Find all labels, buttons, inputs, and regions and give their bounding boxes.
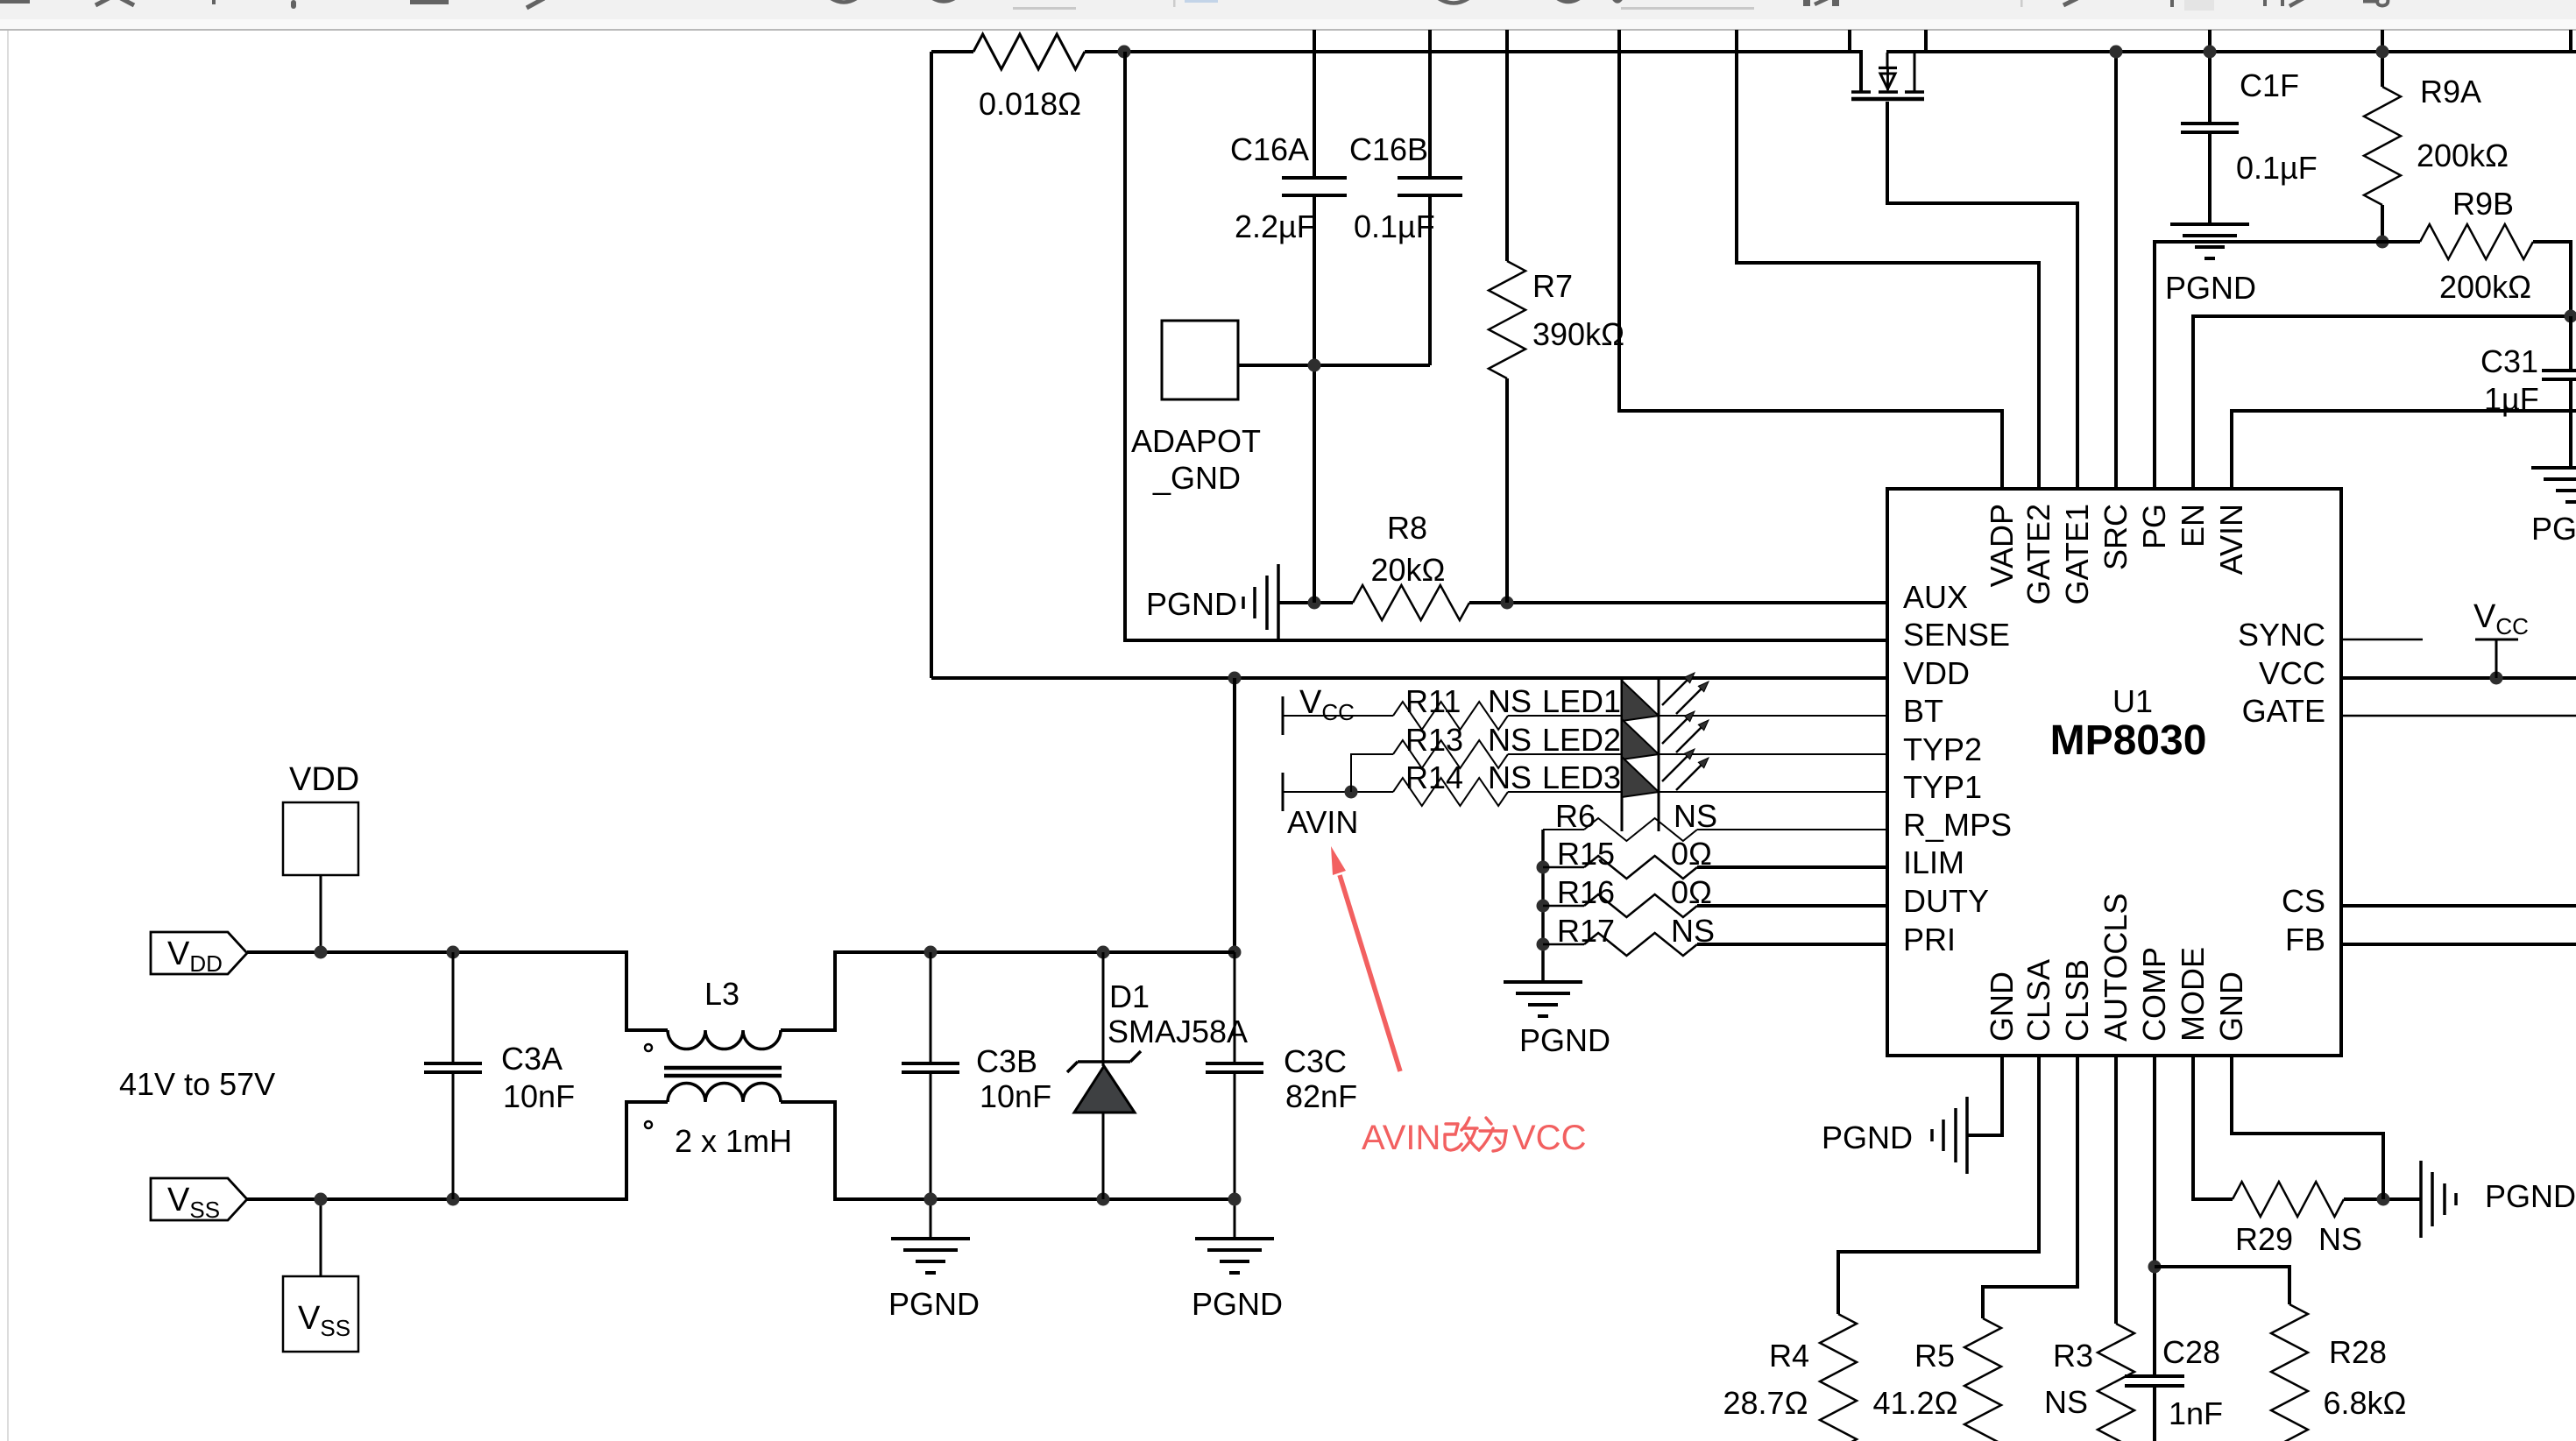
svg-text:VDD: VDD <box>289 761 359 798</box>
svg-text:ADAPOT: ADAPOT <box>1131 423 1261 459</box>
svg-text:PGND: PGND <box>2165 270 2256 306</box>
svg-text:GND: GND <box>2213 971 2249 1042</box>
svg-text:LED2: LED2 <box>1542 722 1621 758</box>
svg-text:0.018Ω: 0.018Ω <box>979 86 1081 122</box>
svg-text:D1: D1 <box>1109 978 1150 1014</box>
svg-text:C16B: C16B <box>1349 131 1428 167</box>
svg-text:0.1µF: 0.1µF <box>1354 208 1435 244</box>
svg-text:FB: FB <box>2285 922 2325 957</box>
svg-text:2 x 1mH: 2 x 1mH <box>675 1123 792 1159</box>
svg-text:6.8kΩ: 6.8kΩ <box>2324 1385 2407 1421</box>
svg-text:NS: NS <box>1488 759 1532 795</box>
svg-text:PGND: PGND <box>1146 586 1237 622</box>
svg-text:TYP1: TYP1 <box>1903 769 1982 805</box>
svg-text:390kΩ: 390kΩ <box>1532 316 1624 352</box>
svg-text:_GND: _GND <box>1152 460 1241 496</box>
svg-text:U1: U1 <box>2112 683 2153 719</box>
svg-text:C3B: C3B <box>976 1043 1037 1079</box>
svg-text:LED1: LED1 <box>1542 683 1621 719</box>
svg-text:0Ω: 0Ω <box>1671 874 1712 910</box>
svg-text:DUTY: DUTY <box>1903 883 1989 919</box>
svg-text:COMP: COMP <box>2136 947 2172 1042</box>
svg-text:R14: R14 <box>1405 759 1463 795</box>
svg-text:L3: L3 <box>704 976 740 1012</box>
svg-text:R7: R7 <box>1532 268 1573 304</box>
svg-text:NS: NS <box>1488 683 1532 719</box>
svg-text:R8: R8 <box>1387 510 1427 546</box>
svg-text:TYP2: TYP2 <box>1903 731 1982 767</box>
svg-text:NS: NS <box>2044 1384 2088 1420</box>
svg-text:NS: NS <box>2318 1221 2362 1257</box>
svg-text:R5: R5 <box>1914 1338 1955 1374</box>
svg-text:AUX: AUX <box>1903 579 1968 615</box>
svg-text:PGND: PGND <box>2531 511 2576 547</box>
svg-text:C28: C28 <box>2162 1334 2220 1370</box>
svg-text:R_MPS: R_MPS <box>1903 807 2012 843</box>
svg-text:AUTOCLS: AUTOCLS <box>2098 894 2134 1042</box>
svg-text:R4: R4 <box>1769 1338 1809 1374</box>
svg-text:MODE: MODE <box>2175 947 2211 1042</box>
svg-text:GATE: GATE <box>2242 693 2325 729</box>
svg-text:CLSB: CLSB <box>2059 959 2095 1042</box>
svg-text:VCC: VCC <box>2259 655 2325 691</box>
svg-text:NS: NS <box>1674 798 1717 834</box>
svg-text:R16: R16 <box>1557 874 1615 910</box>
svg-text:AVIN: AVIN <box>1362 1119 1440 1157</box>
svg-text:VCC: VCC <box>1512 1119 1586 1157</box>
svg-text:10nF: 10nF <box>503 1078 575 1114</box>
svg-text:GATE1: GATE1 <box>2059 504 2095 604</box>
svg-text:R11: R11 <box>1405 683 1461 719</box>
svg-text:1nF: 1nF <box>2169 1395 2223 1431</box>
svg-text:R17: R17 <box>1557 913 1615 949</box>
svg-text:SRC: SRC <box>2098 504 2134 570</box>
svg-text:C3C: C3C <box>1284 1043 1347 1079</box>
svg-text:R9A: R9A <box>2420 74 2481 109</box>
svg-text:AVIN: AVIN <box>2213 504 2249 575</box>
svg-text:PRI: PRI <box>1903 922 1956 957</box>
svg-text:MP8030: MP8030 <box>2050 717 2207 764</box>
svg-text:PGND: PGND <box>1192 1286 1283 1322</box>
svg-text:28.7Ω: 28.7Ω <box>1723 1385 1808 1421</box>
svg-text:VADP: VADP <box>1984 504 2020 587</box>
svg-text:EN: EN <box>2175 504 2211 547</box>
svg-text:0.1µF: 0.1µF <box>2236 150 2318 186</box>
svg-text:GND: GND <box>1984 971 2020 1042</box>
svg-text:CS: CS <box>2282 883 2325 919</box>
svg-text:PGND: PGND <box>1519 1022 1610 1058</box>
svg-text:0Ω: 0Ω <box>1671 836 1712 872</box>
svg-text:ILIM: ILIM <box>1903 844 1964 880</box>
svg-text:PGND: PGND <box>2485 1178 2576 1214</box>
svg-text:PGND: PGND <box>1822 1120 1913 1155</box>
svg-text:200kΩ: 200kΩ <box>2417 138 2509 173</box>
svg-text:C31: C31 <box>2480 343 2538 379</box>
svg-text:VDD: VDD <box>1903 655 1970 691</box>
svg-text:R29: R29 <box>2235 1221 2293 1257</box>
svg-text:200kΩ: 200kΩ <box>2439 269 2531 305</box>
svg-text:SYNC: SYNC <box>2238 617 2325 653</box>
svg-text:R9B: R9B <box>2452 186 2514 222</box>
svg-text:PG: PG <box>2136 504 2172 549</box>
svg-text:82nF: 82nF <box>1285 1078 1357 1114</box>
svg-text:C1F: C1F <box>2240 67 2299 103</box>
svg-text:C3A: C3A <box>501 1041 563 1077</box>
svg-text:10nF: 10nF <box>980 1078 1051 1114</box>
svg-text:BT: BT <box>1903 693 1943 729</box>
svg-text:R3: R3 <box>2053 1338 2093 1374</box>
svg-text:2.2µF: 2.2µF <box>1235 208 1316 244</box>
svg-text:AVIN: AVIN <box>1287 804 1358 840</box>
svg-text:41.2Ω: 41.2Ω <box>1873 1385 1958 1421</box>
svg-text:NS: NS <box>1488 722 1532 758</box>
svg-text:PGND: PGND <box>888 1286 980 1322</box>
svg-text:R13: R13 <box>1405 722 1463 758</box>
svg-text:R28: R28 <box>2329 1334 2387 1370</box>
svg-text:R15: R15 <box>1557 836 1615 872</box>
svg-text:C16A: C16A <box>1230 131 1309 167</box>
svg-text:LED3: LED3 <box>1542 759 1621 795</box>
svg-text:SMAJ58A: SMAJ58A <box>1108 1014 1248 1049</box>
svg-text:1µF: 1µF <box>2484 381 2539 417</box>
svg-text:SENSE: SENSE <box>1903 617 2010 653</box>
svg-text:20kΩ: 20kΩ <box>1371 552 1446 588</box>
svg-text:R6: R6 <box>1555 798 1596 834</box>
svg-text:CLSA: CLSA <box>2020 959 2056 1042</box>
svg-text:GATE2: GATE2 <box>2020 504 2056 604</box>
svg-text:NS: NS <box>1671 913 1715 949</box>
svg-text:41V to 57V: 41V to 57V <box>119 1066 275 1102</box>
